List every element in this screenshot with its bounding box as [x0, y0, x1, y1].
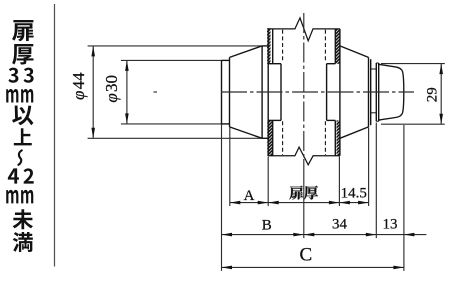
svg-text:φ30: φ30 [102, 75, 121, 103]
svg-text:13: 13 [383, 217, 398, 233]
svg-text:C: C [300, 245, 313, 266]
svg-text:φ44: φ44 [69, 72, 88, 100]
svg-text:A: A [244, 188, 255, 204]
svg-text:29: 29 [425, 87, 441, 102]
svg-text:14.5: 14.5 [341, 185, 367, 201]
svg-text:B: B [262, 217, 272, 233]
svg-text:34: 34 [332, 217, 348, 233]
